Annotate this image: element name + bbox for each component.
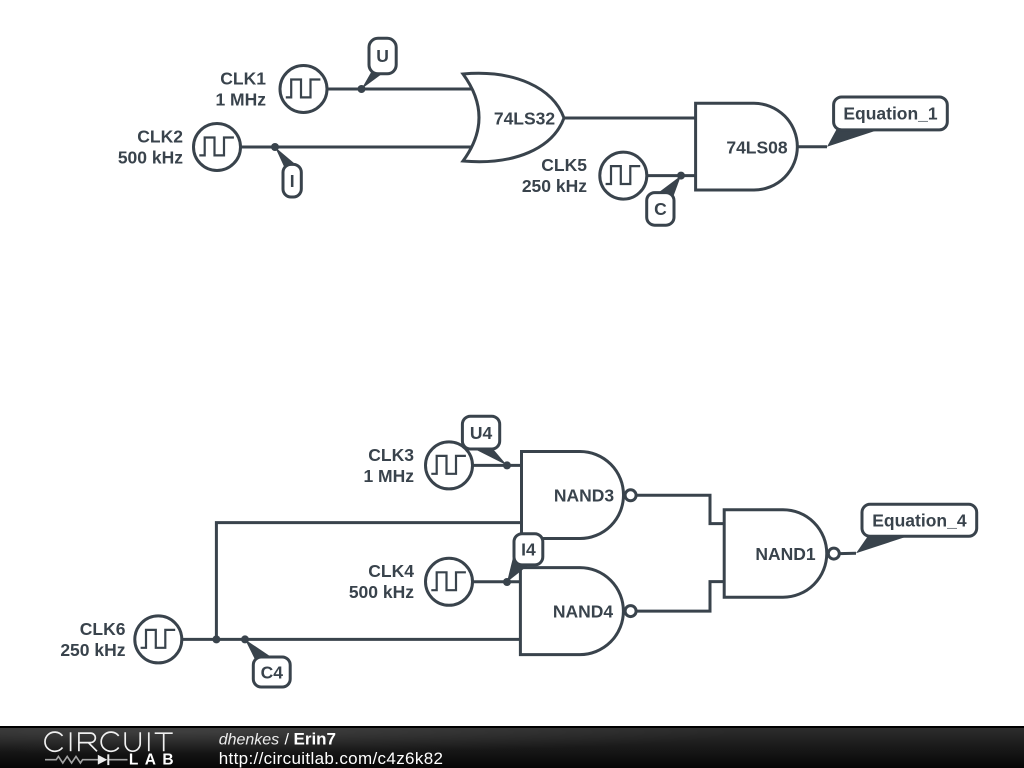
svg-text:74LS08: 74LS08 bbox=[726, 138, 788, 158]
svg-text:I: I bbox=[290, 171, 295, 191]
svg-text:1 MHz: 1 MHz bbox=[215, 89, 266, 109]
svg-text:Equation_1: Equation_1 bbox=[843, 104, 938, 124]
svg-text:500 kHz: 500 kHz bbox=[118, 147, 183, 167]
svg-text:http://circuitlab.com/c4z6k82: http://circuitlab.com/c4z6k82 bbox=[219, 749, 444, 768]
svg-text:LAB: LAB bbox=[129, 751, 180, 768]
svg-text:Erin7: Erin7 bbox=[294, 730, 337, 749]
svg-text:CLK1: CLK1 bbox=[220, 68, 266, 88]
svg-text:/: / bbox=[285, 732, 290, 749]
svg-text:CLK5: CLK5 bbox=[541, 155, 587, 175]
svg-text:NAND4: NAND4 bbox=[553, 602, 614, 622]
svg-text:C4: C4 bbox=[261, 662, 284, 682]
svg-text:U4: U4 bbox=[470, 423, 493, 443]
svg-text:NAND3: NAND3 bbox=[554, 486, 615, 506]
svg-text:dhenkes: dhenkes bbox=[219, 732, 280, 749]
svg-text:U: U bbox=[376, 46, 389, 66]
svg-text:NAND1: NAND1 bbox=[755, 544, 816, 564]
svg-text:I4: I4 bbox=[521, 540, 536, 560]
svg-text:500 kHz: 500 kHz bbox=[349, 582, 414, 602]
svg-text:CLK4: CLK4 bbox=[368, 561, 414, 581]
svg-text:CLK2: CLK2 bbox=[137, 126, 183, 146]
svg-text:C: C bbox=[654, 199, 667, 219]
svg-text:Equation_4: Equation_4 bbox=[872, 510, 967, 530]
svg-text:1 MHz: 1 MHz bbox=[363, 466, 414, 486]
svg-text:250 kHz: 250 kHz bbox=[60, 640, 125, 660]
svg-text:74LS32: 74LS32 bbox=[494, 109, 556, 129]
svg-text:250 kHz: 250 kHz bbox=[522, 176, 587, 196]
svg-text:CLK6: CLK6 bbox=[80, 619, 126, 639]
svg-text:CLK3: CLK3 bbox=[368, 445, 414, 465]
